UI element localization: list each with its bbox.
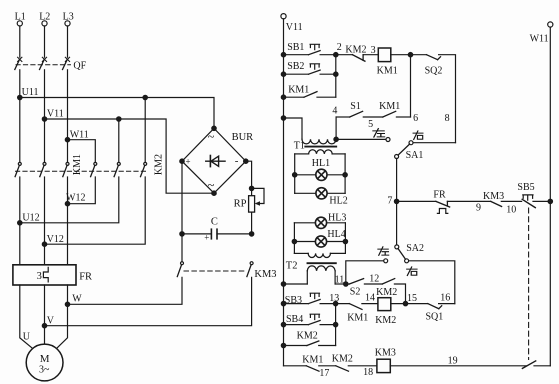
svg-text:KM1: KM1 [377,65,398,76]
svg-text:~: ~ [208,178,215,192]
wire 17 [319,366,336,379]
node V [42,316,54,328]
label you upper [413,131,423,140]
svg-text:KM2: KM2 [376,287,397,298]
wire SB5 contact to right bus corner [534,365,550,367]
junction bus SB2 row [281,72,285,76]
wire 19 coil KM3 to SB5 linked contact [390,355,526,366]
svg-text:V11: V11 [286,22,303,33]
contactor KM1 main contacts [15,154,83,177]
SA2 left throw terminal [384,259,388,263]
wire pole1 down to FR [19,177,21,265]
svg-text:W11: W11 [530,33,549,44]
node 7 [387,196,398,207]
svg-text:13: 13 [329,293,339,304]
contact KM2 NC interlock [345,45,366,62]
svg-text:2: 2 [337,42,342,53]
lamp HL1 [295,158,345,180]
svg-text:HL4: HL4 [327,229,345,240]
svg-text:KM1: KM1 [72,154,83,175]
svg-text:L2: L2 [39,11,50,22]
svg-text:T2: T2 [286,260,298,271]
svg-text:6: 6 [413,113,418,124]
svg-text:U11: U11 [22,87,39,98]
junction HL1 row right [343,173,347,177]
label zuo lower [378,247,389,256]
mechanical linkage dashes of main contact bank [16,170,147,172]
wire L1 drop to QF [19,26,21,57]
wire bus to T1 primary [284,118,303,139]
wire KM2 pole5 bottom to U12 [20,177,119,223]
junction coil output node [408,53,412,57]
wire KM2 aux to node13 column [319,345,336,347]
svg-text:16: 16 [440,293,450,304]
wire KM3 right pole down to V branch [45,277,252,325]
node 13 [329,293,339,306]
wire bus to SB4 [284,324,309,326]
contact KM1 aux in row4 [379,101,400,117]
wire right control bus [549,27,551,366]
wire SB5 to right bus [533,200,550,202]
push button SB2 [287,61,320,74]
svg-text:14: 14 [365,292,375,303]
svg-text:M: M [40,353,50,365]
svg-text:KM1: KM1 [302,354,323,365]
svg-text:W11: W11 [70,129,89,140]
svg-text:18: 18 [363,367,373,378]
contact KM1 aux NO bottom row [302,354,323,371]
wire V11 row to bridge bottom [45,119,215,193]
svg-text:17: 17 [319,368,329,379]
svg-text:S1: S1 [350,101,361,112]
lamp HL2 [295,188,348,207]
wire KM2 pole4 bottom to W12 [68,177,96,204]
svg-text:FR: FR [433,190,446,201]
junction HL1 row left [293,173,297,177]
wire L2 drop to QF [44,26,46,57]
wire V11 to KM2 pole5 [118,119,120,163]
svg-text:8: 8 [445,113,450,124]
svg-text:4: 4 [332,105,337,116]
capacitor C [182,217,252,243]
wire bus to SB1 [284,54,309,56]
svg-text:SQ1: SQ1 [426,312,444,323]
wire KM1 contact to node 6 [396,113,418,124]
push button SB1 [287,42,320,55]
terminal L2 [39,11,50,26]
node U11 [18,87,39,100]
wire bus bottom row to KM1 aux [284,365,307,367]
wire node7 to FR contact [397,200,436,202]
wire bridge minus to RP [246,161,252,196]
svg-text:KM2: KM2 [345,45,366,56]
junction U11 to KM2 pole6 [143,95,147,99]
junction bus SB1 row [281,53,285,57]
wire 12 between S2 and KM2 aux [364,274,382,285]
node V11 [42,109,63,122]
label you lower [407,267,417,276]
svg-text:12: 12 [369,274,379,285]
node W12 [65,193,85,206]
svg-text:HL2: HL2 [329,196,347,207]
svg-text:KM1: KM1 [347,312,368,323]
wire KM2 pole6 bottom to V12 [45,177,146,244]
contact FR NC thermal [433,190,449,214]
switch SA1 [395,141,456,162]
junction bridge left vertex (+) [180,159,184,163]
wire FR to KM3 aux [447,201,490,213]
svg-text:-: - [235,155,239,167]
push button SB5 NC [517,182,535,208]
svg-text:+: + [186,157,191,167]
wire phase C QF to KM1 pole3 [67,70,69,163]
circuit breaker QF [15,57,87,71]
rectifier bridge BUR [182,128,253,193]
node 2 [334,42,342,57]
svg-text:5: 5 [368,119,373,130]
wire bus to T2 primary [284,283,308,285]
junction HL4 row left [292,239,296,243]
junction C row left [180,232,184,236]
contact KM2 aux NO row12 [376,279,397,299]
wire phase A QF to KM1 pole1 [19,70,21,163]
svg-text:S2: S2 [350,286,361,297]
svg-text:SQ2: SQ2 [425,66,443,77]
wire coil KM1 to SQ2 [391,54,427,56]
svg-text:SA2: SA2 [406,243,424,254]
coil KM1 [377,48,398,76]
svg-text:KM3: KM3 [254,269,276,280]
wire SB3 to KM1 aux contact [320,303,349,305]
svg-text:KM1: KM1 [288,85,309,96]
svg-text:HL1: HL1 [312,158,330,169]
svg-text:V11: V11 [47,109,64,120]
svg-text:SA1: SA1 [406,150,424,161]
contact KM2 aux self-hold [297,330,319,345]
junction bridge bottom vertex [212,191,216,195]
coil KM2 [375,298,396,326]
svg-text:KM2: KM2 [332,353,353,364]
svg-text:U12: U12 [22,212,39,223]
limit switch SQ2 [425,55,443,77]
svg-text:SB3: SB3 [285,295,302,306]
svg-text:SB2: SB2 [287,61,304,72]
node 11 [344,282,348,286]
rheostat RP [234,188,264,212]
wire KM1 aux to node2 column [317,96,336,98]
svg-text:~: ~ [208,129,215,143]
junction RP wiper tap [249,186,253,190]
wire SQ2 to SA1 right column [439,55,456,143]
wire 14 to coil KM2 [362,292,378,303]
junction SB4 node13 column [333,322,337,326]
wire pole3 down to FR [67,177,69,265]
junction HL4 row right [343,239,347,243]
svg-text:KM2: KM2 [154,154,165,175]
terminal W11 (control) [530,22,553,45]
wire U below FR to motor [20,285,33,349]
push button SB4 [286,314,320,325]
contact KM3 brake right pole [247,262,277,280]
svg-text:SB4: SB4 [286,314,303,325]
terminal V11 (control) [281,14,303,34]
lamp panel box HL3/HL4 [294,223,345,254]
coil KM3 [375,348,396,373]
transformer T1 [294,139,336,154]
wire RP bottom to C row [251,212,253,234]
junction SB2 node2 column [334,72,338,76]
wire 18 to coil KM3 [348,366,377,378]
contact KM1 aux NO row14 [347,304,368,324]
switch SA2 [395,243,424,263]
switch S1 [350,101,363,117]
svg-text:11: 11 [335,274,345,285]
wire node6 riser [410,55,412,117]
svg-text:C: C [211,217,218,228]
terminal L1 [15,11,26,26]
push button SB3 [285,293,320,306]
svg-text:W12: W12 [66,193,85,204]
svg-text:KM3: KM3 [375,348,396,359]
wire KM2 aux to node 15 riser [394,284,405,304]
junction bus T1 row [281,116,285,120]
wire SA2 left throw to node 11 [346,261,384,284]
contact KM2 aux NO bottom row [332,353,353,371]
node W11 [65,129,88,142]
wire U11 to KM2 pole6 [144,98,146,163]
svg-text:QF: QF [73,60,86,71]
wire SA2 right throw to row 16 [409,261,455,304]
contact KM3 brake left pole [177,262,183,277]
node 15 [403,293,417,306]
wire bus to SB2 [284,73,309,75]
wire T2 primary to node 11 [335,274,346,285]
lamp HL3 [294,212,346,228]
wire SB4 to node13 column [320,324,336,326]
wire KM3 aux to SB5 [501,201,521,215]
junction bus KM2 aux row [281,343,285,347]
svg-text:FR: FR [79,271,92,282]
transformer T2 [286,253,346,284]
svg-text:KM1: KM1 [379,101,400,112]
svg-text:SB1: SB1 [287,42,304,53]
wire U11 row to bridge top [20,98,214,129]
diode inside bridge [206,156,225,167]
svg-text:19: 19 [448,355,458,366]
wire node2 column [335,55,337,97]
junction right bus FR row [548,199,552,203]
switch S2 [346,279,364,298]
motor M 3-phase [26,344,63,381]
lamp HL4 [294,229,345,247]
contact KM1 aux self-hold [288,85,317,98]
wire T1 right to SA1 left throw [336,138,386,140]
wire coil KM2 to SQ1 [391,303,428,305]
wire SB1 to KM2 NC [320,54,352,56]
wire node4 down to T1 [335,117,337,139]
svg-text:10: 10 [506,205,516,216]
svg-text:3: 3 [37,271,42,282]
junction bus SB4 row [281,322,285,326]
wire pole2 down to FR [44,177,46,265]
svg-text:V12: V12 [47,234,64,245]
wire SB2 to node2 column [320,73,336,75]
svg-text:SB5: SB5 [517,182,534,193]
node W [65,294,82,307]
svg-text:W: W [72,294,82,305]
svg-text:9: 9 [476,202,481,213]
contact KM3 aux NO [483,191,504,207]
svg-text:T1: T1 [294,141,305,152]
SA1 left throw terminal [386,138,390,142]
wire 16 to SA2 right column [439,293,455,304]
wire 5 between S1 and KM1 contact [363,117,383,130]
limit switch SQ1 [426,304,444,323]
wire L3 drop to QF [67,26,69,57]
svg-text:U: U [23,332,31,343]
wire node7 to SA2 [396,201,398,245]
junction bus SB3 row [281,301,285,305]
wire KM3 left pole down to W branch [68,277,183,304]
wire KM2 NC to coil KM1 [363,45,378,56]
svg-text:+: + [204,233,209,243]
junction V11 to KM2 pole5 [117,117,121,121]
svg-text:7: 7 [387,196,392,207]
wire V below FR to motor [44,285,46,344]
lamp panel box HL1/HL2 [295,154,345,193]
wire node13 column [335,304,337,346]
terminal L3 [63,11,74,26]
wire bridge plus down left column [181,161,183,262]
thermal relay FR heater box [13,265,92,285]
wire phase B QF to KM1 pole2 [44,70,46,163]
node V12 [42,234,64,247]
junction C row right [249,232,253,236]
contactor KM2 main contacts [91,154,165,177]
contact SB5 linked NC bottom [522,361,535,369]
wire left control bus [283,19,285,366]
wire W below FR to motor [56,285,67,349]
wire bus to KM2 aux [284,345,307,347]
wire bus to SB3 [284,303,309,305]
svg-text:BUR: BUR [232,132,254,143]
wire node4 to S1 [336,116,350,118]
svg-text:HL3: HL3 [328,212,346,223]
svg-text:KM3: KM3 [483,191,504,202]
svg-text:15: 15 [407,293,417,304]
svg-text:KM2: KM2 [375,315,396,326]
node U12 [18,212,40,225]
junction bridge top vertex [212,126,216,130]
mechanical linkage dashes KM3 [184,270,246,272]
svg-text:V: V [47,316,55,327]
svg-text:RP: RP [234,199,247,210]
junction bus T2 row [281,282,285,286]
svg-text:3: 3 [371,45,376,56]
wire W11 to KM2 pole4 [68,140,96,163]
junction bridge right vertex (-) [244,159,248,163]
svg-text:L3: L3 [63,11,74,22]
svg-text:L1: L1 [15,11,26,22]
junction bus KM1 aux row [281,95,285,99]
junction T1 primary right / node4 [334,137,338,141]
svg-text:3~: 3~ [39,365,50,376]
mechanical linkage dashes SB5 [528,208,530,360]
wire bus to KM1 aux [284,96,305,98]
wire SA1 common to node 7 [396,159,398,202]
label zuo upper [373,129,385,138]
svg-text:KM2: KM2 [297,330,318,341]
